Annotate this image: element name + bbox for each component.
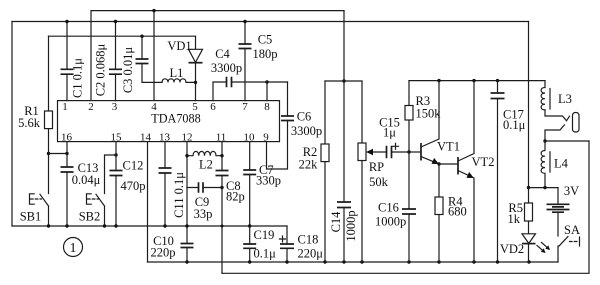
svg-text:11: 11 [216,132,227,144]
svg-text:VD2: VD2 [500,242,524,256]
svg-text:3300p: 3300p [291,124,322,138]
node R1 bottom junction [47,152,50,155]
svg-text:0.1μ: 0.1μ [254,247,277,261]
pushbutton SB1 [20,194,49,226]
wire: top rail from pin 2 to pin 4 to tuning line [91,11,344,101]
capacitor C6 [267,82,323,169]
svg-text:C4: C4 [215,47,230,61]
node C15/R3 junction [407,150,410,153]
resistor R2 [299,81,329,262]
svg-text:C18: C18 [298,233,319,247]
svg-text:C12: C12 [123,158,144,172]
svg-text:VT1: VT1 [437,139,460,153]
svg-text:22k: 22k [299,158,319,172]
capacitor C13 [61,142,101,226]
diode VD1 [167,36,202,84]
LED VD2 [500,234,550,262]
svg-text:C14: C14 [329,211,343,233]
node L4 bottom junction [543,186,546,189]
svg-text:1k: 1k [508,212,521,226]
svg-text:7: 7 [242,101,248,113]
switch SA [558,223,580,262]
svg-text:L3: L3 [558,92,572,106]
svg-text:180p: 180p [253,47,278,61]
wire collector line y=80.6 [409,80,545,82]
resistor R5 [508,188,533,234]
svg-text:C2 0.068μ: C2 0.068μ [94,43,108,96]
svg-text:50k: 50k [369,175,389,189]
svg-text:1: 1 [62,101,68,113]
capacitor C7 [243,142,281,226]
transistor VT2 [458,81,494,262]
capacitor C18 (electrolytic) [280,226,324,262]
svg-text:470p: 470p [121,179,146,193]
svg-text:C3 0.01μ: C3 0.01μ [121,47,135,94]
capacitor C15 (electrolytic) [379,115,409,158]
svg-text:C11 0.1μ: C11 0.1μ [172,172,186,218]
node VT1 emitter junction [437,162,440,165]
svg-text:2: 2 [88,101,94,113]
node L4 top junction [543,139,546,142]
wire right frame from rail to R5 [528,22,530,188]
node junctions on bus 226 [47,224,50,227]
capacitor C11 [159,142,187,226]
svg-text:C6: C6 [297,109,312,123]
capacitor C4 [211,47,288,101]
svg-text:VD1: VD1 [167,39,191,53]
svg-text:220p: 220p [151,245,176,259]
svg-text:L4: L4 [554,156,569,170]
wire earphone return bottom line y=272.8 [222,141,589,273]
node junctions on bus 262 [185,260,188,263]
svg-text:5: 5 [192,101,198,113]
svg-text:330p: 330p [256,173,281,187]
svg-text:C16: C16 [378,200,399,214]
wire L4 junction to right frame [545,140,589,142]
node C3 junction on AFC line [140,35,143,38]
capacitor C14 [329,202,358,242]
svg-text:150k: 150k [416,106,442,120]
wire R1 junction to C13 [49,153,68,155]
svg-text:220μ: 220μ [298,247,324,261]
svg-text:3V: 3V [564,184,579,198]
wire bracket R2 RP [325,80,362,82]
inductor L1 [162,66,196,82]
wire pin 14 down to ground bus [147,142,149,262]
inductor L3 [541,81,572,110]
op-amp U1: IC TDA7088 box [58,101,280,142]
earphone [573,113,580,133]
svg-text:1μ: 1μ [383,125,396,139]
svg-text:C1 0.1μ: C1 0.1μ [71,58,85,98]
svg-text:33p: 33p [194,207,213,221]
capacitor C16 [375,152,416,262]
potentiometer RP [358,81,389,262]
resistor R4 [435,164,467,262]
wire: AFC line from R1 top to VD1 [49,35,196,37]
svg-text:3300p: 3300p [211,61,242,75]
svg-text:1: 1 [70,241,77,256]
svg-text:0.1μ: 0.1μ [503,118,526,132]
capacitor C8 [216,142,245,274]
earphone jack lower contact [545,125,565,141]
node tuning bracket junction [342,79,345,82]
battery 3V [547,184,580,236]
wire pin 8 [266,82,268,101]
earphone jack upper contact [545,110,570,121]
circled figure number 1 [64,238,83,257]
capacitor C17 [491,81,526,262]
wire pin 5 [195,82,197,100]
wire VT1 emitter to VT2 base [439,163,457,165]
resistor R1 [18,36,52,193]
wire: second rail y=21.5 across top [12,21,529,23]
inductor L2 [185,151,223,171]
capacitor C19 [243,226,276,262]
svg-text:4: 4 [151,101,157,113]
svg-text:8: 8 [264,101,270,113]
svg-text:SA: SA [564,223,580,237]
node pin4 top junction [152,9,155,12]
svg-text:VT2: VT2 [472,155,495,169]
svg-text:SB1: SB1 [20,209,42,223]
capacitor C2 [94,20,123,101]
svg-text:1000p: 1000p [344,210,358,241]
capacitor C10 [151,234,194,259]
pushbutton SB2 [79,153,118,226]
inductor L4 [541,141,569,188]
capacitor C3 [121,36,162,93]
svg-text:3: 3 [112,101,118,113]
svg-text:C5: C5 [258,32,273,46]
svg-text:TDA7088: TDA7088 [151,112,200,126]
svg-text:RP: RP [369,160,384,174]
capacitor C1 [61,20,85,101]
resistor R3 [405,81,441,152]
node R5 top junction [527,186,530,189]
wire junction to battery [529,187,559,189]
svg-text:1000p: 1000p [375,214,406,228]
wire: left frame vertical [11,22,13,227]
capacitor C12 [110,142,146,226]
wire pin 12 down through C10 [186,142,188,262]
wire tuning line down through C14 [343,11,345,262]
svg-text:14: 14 [140,132,152,144]
wire ground bus y=226 [12,225,287,227]
svg-text:SB2: SB2 [79,209,101,223]
svg-text:L2: L2 [199,157,213,171]
svg-text:L1: L1 [170,66,184,80]
transistor VT1 [409,81,460,164]
capacitor C5 [239,20,278,101]
capacitor C9 [187,182,224,221]
svg-text:82p: 82p [226,189,245,203]
wire main bottom bus y=262 [148,261,559,263]
node C13 junction [65,152,68,155]
svg-text:5.6k: 5.6k [18,116,41,130]
svg-text:6: 6 [210,101,216,113]
svg-text:C19: C19 [254,228,275,242]
svg-text:0.04μ: 0.04μ [72,173,101,187]
svg-text:680: 680 [448,204,467,218]
